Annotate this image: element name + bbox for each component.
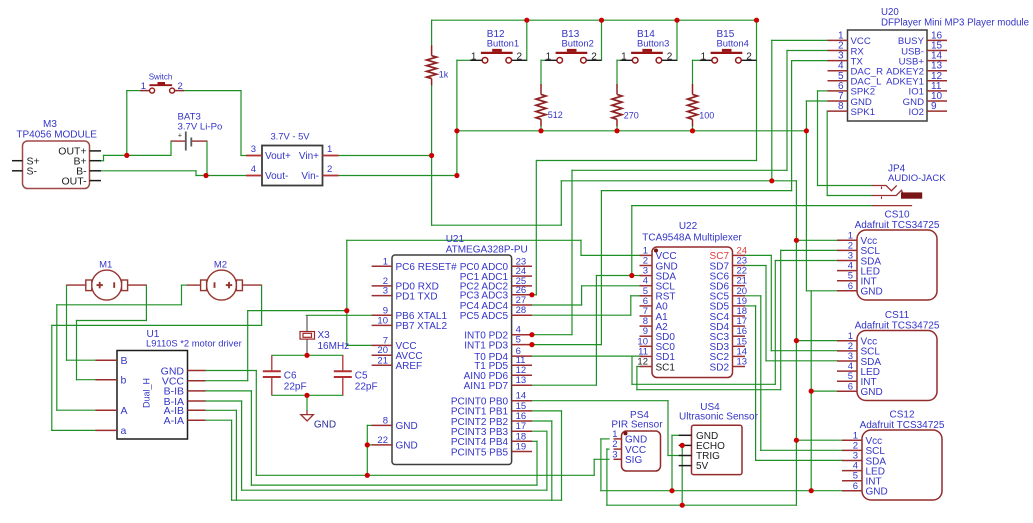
svg-text:S-: S- <box>27 166 38 178</box>
svg-text:1: 1 <box>471 51 477 62</box>
svg-text:GND: GND <box>314 420 336 431</box>
svg-text:3: 3 <box>612 449 617 460</box>
svg-text:8: 8 <box>383 415 388 426</box>
svg-text:Adafruit TCS34725: Adafruit TCS34725 <box>855 220 940 231</box>
svg-text:PC6 RESET#: PC6 RESET# <box>396 262 458 273</box>
svg-text:6: 6 <box>848 281 853 292</box>
svg-text:CS10: CS10 <box>884 210 909 221</box>
svg-text:6: 6 <box>848 381 853 392</box>
svg-text:Adafruit TCS34725: Adafruit TCS34725 <box>855 321 940 332</box>
svg-text:PB7 XTAL2: PB7 XTAL2 <box>396 321 448 332</box>
svg-text:PC5 ADC5: PC5 ADC5 <box>460 311 509 322</box>
svg-text:512: 512 <box>548 110 563 120</box>
svg-text:SIG: SIG <box>625 455 642 466</box>
svg-text:U22: U22 <box>679 221 698 232</box>
svg-text:SD2: SD2 <box>710 362 730 373</box>
svg-text:2: 2 <box>327 164 332 175</box>
svg-text:13: 13 <box>516 375 527 386</box>
svg-text:CS12: CS12 <box>889 410 914 421</box>
svg-text:A: A <box>121 405 128 417</box>
svg-text:C6: C6 <box>284 371 297 382</box>
svg-text:L9110S *2 motor driver: L9110S *2 motor driver <box>146 337 242 348</box>
svg-text:Vout-: Vout- <box>265 171 288 182</box>
svg-text:22pF: 22pF <box>355 382 378 393</box>
svg-text:2: 2 <box>517 51 523 62</box>
svg-text:C5: C5 <box>355 371 368 382</box>
svg-text:2: 2 <box>591 51 597 62</box>
svg-text:1: 1 <box>383 256 388 267</box>
svg-text:b: b <box>121 375 127 387</box>
svg-text:Vin-: Vin- <box>301 171 319 182</box>
svg-text:Ultrasonic Sensor: Ultrasonic Sensor <box>679 412 759 423</box>
svg-text:21: 21 <box>377 355 388 366</box>
svg-text:X3: X3 <box>318 330 331 341</box>
svg-text:PIR Sensor: PIR Sensor <box>611 419 663 430</box>
svg-text:19: 19 <box>516 442 527 453</box>
svg-text:22pF: 22pF <box>284 382 307 393</box>
svg-text:AUDIO-JACK: AUDIO-JACK <box>888 173 946 184</box>
svg-text:1: 1 <box>701 51 707 62</box>
svg-text:A-IA: A-IA <box>164 415 184 427</box>
svg-text:3.7V Li-Po: 3.7V Li-Po <box>178 121 223 132</box>
svg-text:Button1: Button1 <box>487 37 519 48</box>
svg-text:INT1 PD3: INT1 PD3 <box>464 340 508 351</box>
svg-text:SC1: SC1 <box>656 362 676 373</box>
svg-text:Dual_H: Dual_H <box>142 378 152 408</box>
svg-text:9: 9 <box>931 101 937 112</box>
svg-text:Vout+: Vout+ <box>265 151 291 162</box>
svg-text:M2: M2 <box>214 260 227 271</box>
svg-text:+: + <box>178 133 182 140</box>
svg-text:5: 5 <box>516 335 521 346</box>
svg-text:1: 1 <box>621 51 627 62</box>
svg-text:M1: M1 <box>99 260 112 271</box>
svg-text:Button4: Button4 <box>717 37 749 48</box>
svg-text:TCA9548A Multiplexer: TCA9548A Multiplexer <box>642 232 742 243</box>
svg-text:3.7V - 5V: 3.7V - 5V <box>270 130 310 141</box>
svg-text:GND: GND <box>861 387 883 398</box>
svg-text:PCINT5 PB5: PCINT5 PB5 <box>451 447 509 458</box>
svg-text:SPK1: SPK1 <box>851 107 876 118</box>
svg-text:28: 28 <box>516 305 527 316</box>
svg-text:AIN1 PD7: AIN1 PD7 <box>464 381 509 392</box>
svg-text:TP4056 MODULE: TP4056 MODULE <box>16 129 97 140</box>
svg-text:IO2: IO2 <box>909 107 924 118</box>
svg-text:Switch: Switch <box>149 73 173 82</box>
svg-text:22: 22 <box>377 435 388 446</box>
svg-text:DFPlayer Mini MP3 Player modul: DFPlayer Mini MP3 Player module <box>881 18 1029 29</box>
svg-text:270: 270 <box>624 111 639 121</box>
svg-text:10: 10 <box>377 315 388 326</box>
svg-text:2: 2 <box>178 81 183 92</box>
svg-text:5V: 5V <box>696 461 709 472</box>
svg-text:13: 13 <box>737 357 748 368</box>
svg-text:12: 12 <box>637 357 648 368</box>
svg-text:U20: U20 <box>881 7 899 18</box>
svg-text:GND: GND <box>866 487 888 498</box>
svg-text:B: B <box>121 355 128 367</box>
svg-text:GND: GND <box>396 421 418 432</box>
svg-text:Adafruit TCS34725: Adafruit TCS34725 <box>860 420 945 431</box>
svg-text:3: 3 <box>383 286 388 297</box>
svg-text:2: 2 <box>746 51 752 62</box>
svg-text:AREF: AREF <box>396 361 423 372</box>
svg-text:100: 100 <box>699 111 714 121</box>
svg-text:1: 1 <box>327 144 332 155</box>
svg-text:8: 8 <box>838 101 844 112</box>
svg-text:1: 1 <box>141 81 146 92</box>
svg-text:1: 1 <box>546 51 552 62</box>
svg-text:GND: GND <box>396 441 418 452</box>
svg-text:Vin+: Vin+ <box>299 151 319 162</box>
svg-text:16MHz: 16MHz <box>318 341 350 352</box>
svg-text:3: 3 <box>251 144 256 155</box>
svg-text:GND: GND <box>861 287 883 298</box>
svg-text:2: 2 <box>667 51 673 62</box>
svg-text:Button2: Button2 <box>562 37 594 48</box>
svg-text:Button3: Button3 <box>637 37 669 48</box>
svg-text:a: a <box>121 425 127 437</box>
svg-text:ATMEGA328P-PU: ATMEGA328P-PU <box>446 244 528 255</box>
svg-text:CS11: CS11 <box>885 310 910 321</box>
svg-text:OUT-: OUT- <box>62 175 88 187</box>
svg-text:6: 6 <box>853 481 858 492</box>
svg-text:1k: 1k <box>439 70 449 80</box>
svg-text:4: 4 <box>251 164 256 175</box>
svg-text:PD1 TXD: PD1 TXD <box>396 291 438 302</box>
